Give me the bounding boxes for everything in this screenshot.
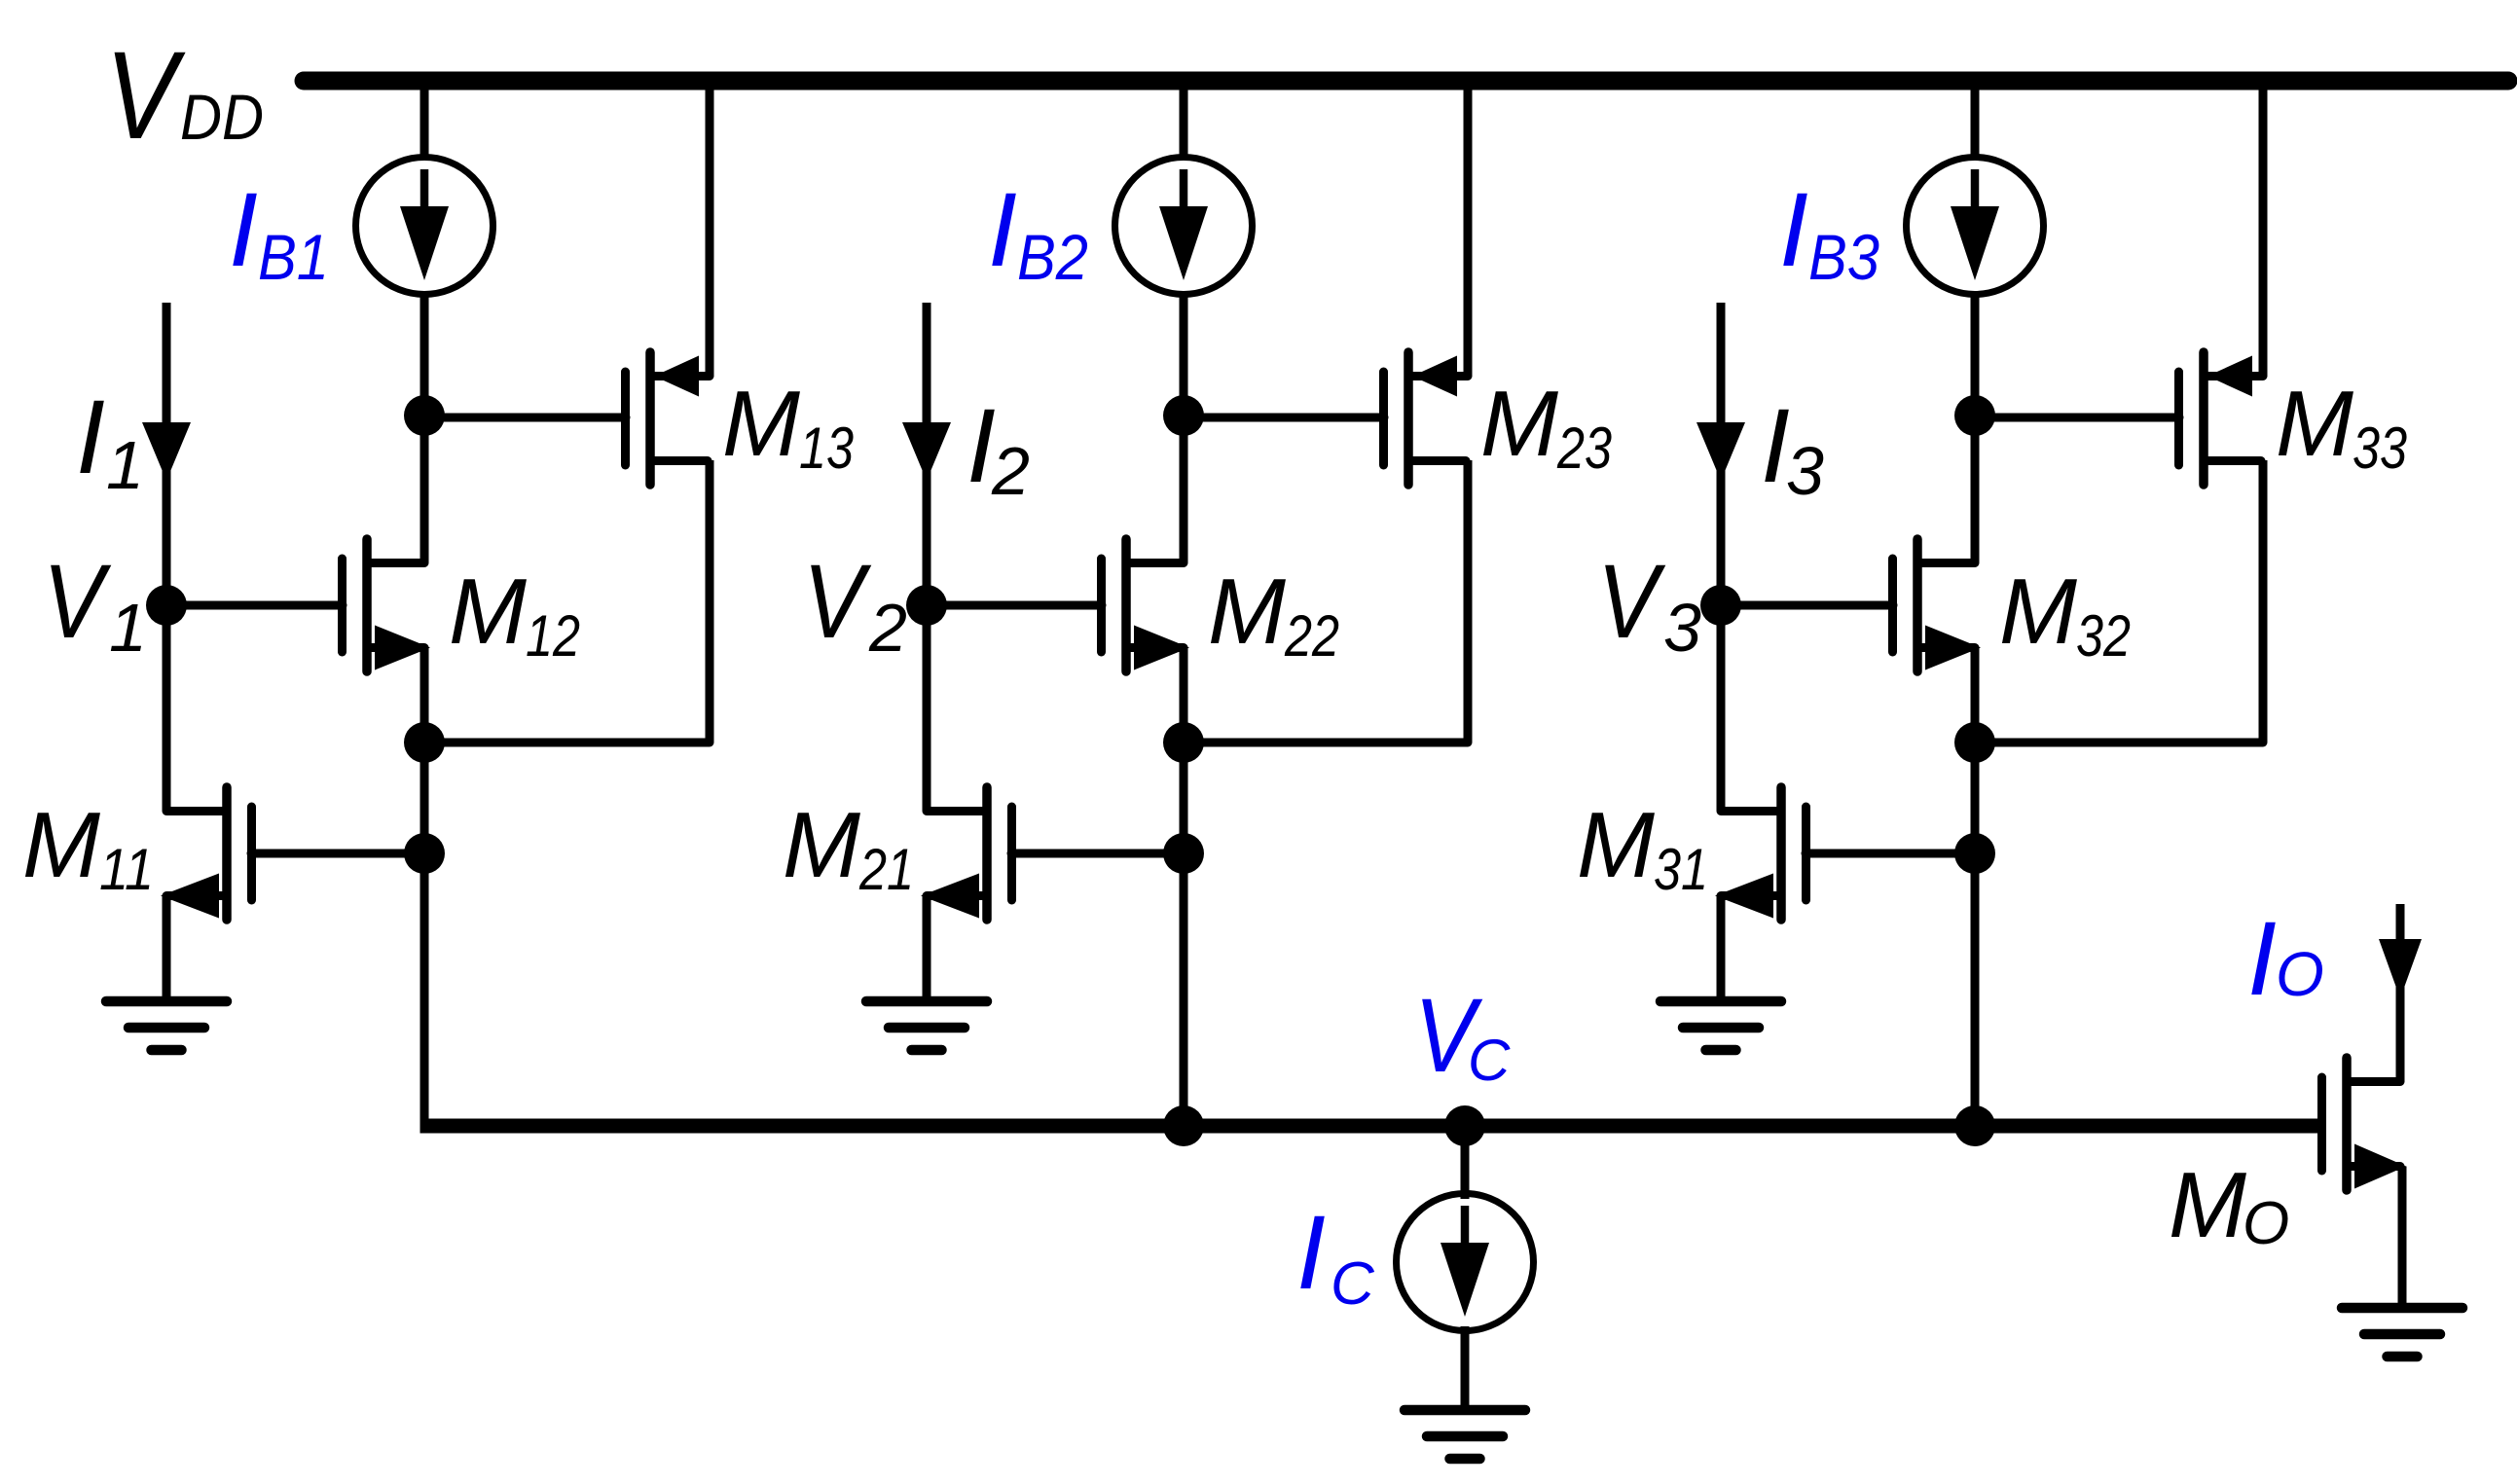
svg-text:22: 22 [1284, 603, 1339, 669]
svg-text:B2: B2 [1017, 221, 1088, 293]
svg-text:M: M [2169, 1153, 2246, 1257]
svg-text:1: 1 [109, 590, 147, 666]
svg-text:21: 21 [858, 837, 914, 902]
svg-text:13: 13 [799, 416, 854, 481]
svg-text:M: M [2276, 372, 2353, 476]
svg-text:V: V [105, 26, 186, 165]
svg-text:I: I [76, 378, 105, 495]
svg-text:C: C [1468, 1028, 1511, 1093]
svg-text:O: O [2243, 1190, 2289, 1257]
svg-text:M: M [1480, 372, 1558, 476]
svg-text:I: I [988, 170, 1017, 288]
svg-text:2: 2 [991, 433, 1030, 509]
svg-text:B1: B1 [258, 221, 329, 293]
svg-text:V: V [43, 542, 112, 660]
svg-text:I: I [1779, 170, 1808, 288]
svg-text:M: M [783, 793, 860, 897]
svg-text:I: I [1296, 1193, 1326, 1311]
svg-text:M: M [722, 372, 800, 476]
svg-text:I: I [229, 170, 258, 288]
svg-text:32: 32 [2076, 603, 2131, 669]
svg-text:DD: DD [180, 81, 264, 153]
svg-text:B3: B3 [1808, 221, 1879, 293]
svg-text:3: 3 [1786, 433, 1824, 509]
svg-text:11: 11 [99, 837, 154, 902]
svg-text:M: M [1577, 793, 1655, 897]
svg-text:2: 2 [868, 590, 907, 666]
svg-text:33: 33 [2353, 416, 2407, 481]
svg-text:12: 12 [526, 603, 580, 669]
svg-text:V: V [1597, 542, 1666, 660]
svg-text:31: 31 [1654, 837, 1708, 902]
svg-text:M: M [22, 793, 100, 897]
svg-text:23: 23 [1556, 416, 1612, 481]
svg-text:O: O [2276, 939, 2324, 1009]
svg-text:C: C [1331, 1250, 1375, 1318]
svg-text:3: 3 [1663, 590, 1701, 666]
svg-text:M: M [1999, 560, 2077, 664]
svg-text:V: V [803, 542, 872, 660]
svg-text:I: I [2247, 899, 2277, 1017]
svg-text:M: M [449, 560, 527, 664]
svg-text:M: M [1208, 560, 1286, 664]
svg-text:1: 1 [106, 427, 144, 503]
